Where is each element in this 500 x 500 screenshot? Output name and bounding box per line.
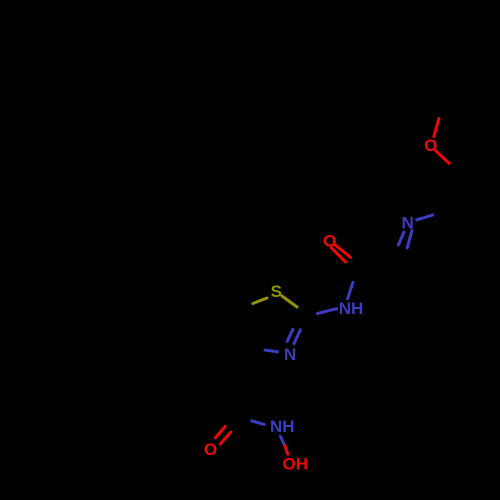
bond C=O amide red half line 2 <box>331 248 346 263</box>
bond NH-OH blue half <box>280 436 284 445</box>
bond N3=C2 thiazole blue half inner line <box>294 330 300 344</box>
bond O-C(aryl) red half (methoxy) <box>436 151 450 164</box>
bond N3-C4 thiazole blue half <box>265 350 278 352</box>
bond S-C2 yellow half (thiazole) <box>282 296 297 307</box>
bond N(pyridine)=C2 blue half inner line <box>407 231 412 248</box>
bond C-NH hydroxamic blue half <box>252 421 265 425</box>
bond C=O hydroxamic red half line 2 <box>220 432 231 444</box>
bond N(pyridine)-C6 blue half <box>417 215 433 220</box>
svg-text:O: O <box>204 440 217 459</box>
bond C=O hydroxamic red half line 1 <box>215 427 225 438</box>
svg-text:NH: NH <box>339 299 364 318</box>
svg-text:O: O <box>424 136 437 155</box>
svg-text:NH: NH <box>270 417 295 436</box>
svg-text:O: O <box>323 231 336 250</box>
svg-text:S: S <box>271 282 282 301</box>
svg-text:N: N <box>284 345 296 364</box>
bond C=O amide red half line 1 <box>334 244 351 257</box>
svg-text:OH: OH <box>283 455 309 474</box>
bond N(pyridine)=C2 blue half main line <box>398 232 404 245</box>
bond O-CH3 red half (methoxy) <box>434 118 439 136</box>
bond N3=C2 thiazole blue half main line <box>287 329 293 341</box>
bond NH-C(=O) blue half <box>348 282 353 298</box>
svg-text:N: N <box>401 214 413 233</box>
bond S-C5 yellow half (thiazole) <box>253 298 267 304</box>
bond NH-OH red stub near OH <box>285 446 288 455</box>
bond NH-C2(thiazole) blue half <box>318 309 337 314</box>
